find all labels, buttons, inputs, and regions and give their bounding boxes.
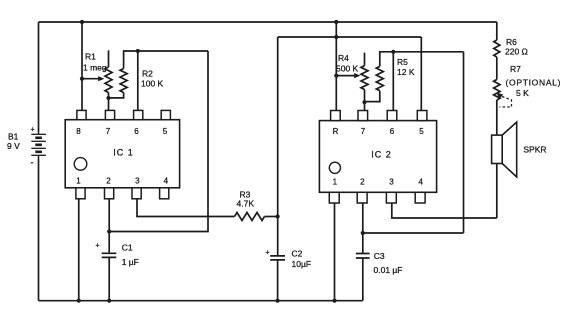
wire: top rail down to IC2 pin 8 [335, 22, 337, 111]
junction: R1 wiper tap [80, 77, 84, 81]
IC1 bottom pin 4 lead [160, 188, 169, 199]
IC1 pin-1 index circle [74, 158, 87, 171]
svg-text:7: 7 [361, 127, 366, 136]
op-amp/IC U1 (IC 1) body [65, 120, 179, 188]
capacitor C3 0.01uF [356, 254, 370, 259]
wire: C2 to bottom rail [277, 260, 279, 301]
resistor R4 500K potentiometer element [361, 66, 368, 90]
junction: R4 wiper tap [334, 74, 338, 78]
wire: top rail to R6 [496, 22, 498, 40]
wire: H3 upper tie line [278, 36, 422, 38]
junction: C2 / bottom rail [276, 299, 280, 303]
junction: R4 bottom / R5 bottom [362, 100, 366, 104]
svg-text:1: 1 [76, 177, 81, 186]
wire: down to IC1 pin 6 [137, 51, 139, 110]
junction: pin-1 wire / bottom rail [77, 299, 81, 303]
IC2 bottom pin 2 lead [357, 192, 367, 203]
junction: top rail / IC2 branch [334, 20, 338, 24]
IC1 top pin 6 lead [134, 110, 143, 119]
wire: down to IC2 pin 6 [392, 52, 394, 111]
svg-text:R6: R6 [506, 37, 517, 47]
svg-text:8: 8 [76, 127, 81, 136]
svg-text:C3: C3 [374, 251, 385, 261]
wire: battery B1 negative lead to bottom rail [38, 159, 40, 301]
wire: IC2 pin 3 to speaker [392, 203, 497, 218]
resistor R6 220 ohm element [494, 40, 500, 57]
wire: R2 bottom elbow to junction [109, 93, 124, 98]
wire: top rail to IC1 pin 8 [81, 22, 83, 110]
junction: R3 / middle vertical [276, 214, 280, 218]
op-amp/IC U2 (IC 2) body [319, 121, 436, 193]
svg-text:R5: R5 [397, 57, 408, 67]
svg-text:6: 6 [134, 127, 139, 136]
wire: C1 to bottom rail [108, 257, 110, 300]
svg-text:R7: R7 [510, 64, 521, 74]
junction: IC2 pin 2 / C3 / feedback [361, 231, 365, 235]
svg-text:2: 2 [360, 178, 365, 187]
svg-text:R2: R2 [142, 69, 153, 79]
IC1 top pin 8 lead [77, 110, 86, 119]
IC2 top pin 6 lead [387, 111, 397, 121]
junction: IC1 pin 2 / C1 / R2 loop [107, 229, 111, 233]
IC2 bottom pin 1 lead [329, 192, 339, 203]
svg-text:5 K: 5 K [516, 88, 529, 98]
resistor R7 dashed wiper arrow [497, 93, 504, 99]
resistor R4 wiper arrow [336, 75, 355, 77]
svg-text:0.01 µF: 0.01 µF [374, 265, 403, 275]
wire: R4 top stub (unconnected end) [364, 53, 366, 66]
svg-text:9 V: 9 V [7, 141, 20, 151]
wire: speaker return lead [496, 164, 498, 219]
wire: C3 to bottom rail end [362, 258, 364, 301]
junction: R1 bottom / R2 bottom [106, 96, 110, 100]
junction: C1 / bottom rail [107, 299, 111, 303]
wire: middle vertical (H3 to C2) [277, 37, 279, 256]
svg-text:6: 6 [390, 127, 395, 136]
wire: bottom ground rail [39, 300, 363, 302]
resistor R5 12K element [376, 66, 383, 90]
wire: R1/R2 bottom to IC1 pin 7 [108, 93, 110, 111]
svg-text:R: R [333, 127, 339, 136]
svg-text:R4: R4 [338, 53, 349, 63]
wire: pin-2 node to right vertical [363, 232, 464, 234]
wire: R5 bottom elbow to junction [365, 91, 380, 102]
wire: R3 right lead [265, 216, 278, 218]
svg-text:500 K: 500 K [336, 64, 359, 74]
svg-text:1: 1 [333, 178, 338, 187]
wire: H4 right end down to pin2 node [463, 52, 465, 233]
svg-text:C1: C1 [122, 243, 133, 253]
IC2 bottom pin 3 lead [386, 192, 396, 203]
battery B1 9V [31, 132, 46, 159]
svg-text:220 Ω: 220 Ω [505, 47, 528, 57]
junction: H4 / IC2 pin-6 branch [391, 50, 395, 54]
capacitor C1 1uF [102, 253, 117, 257]
IC1 bottom pin 2 lead [105, 188, 114, 199]
wire: R2-loop down and left to IC1 pin 2 node [109, 51, 208, 232]
wire: R7 to speaker [496, 100, 498, 135]
IC2 top pin R lead [331, 111, 341, 121]
svg-text:4: 4 [164, 177, 169, 186]
svg-text:4.7K: 4.7K [237, 199, 255, 209]
svg-text:3: 3 [135, 177, 140, 186]
svg-text:1 meg: 1 meg [83, 63, 107, 73]
IC2 top pin 7 lead [358, 111, 368, 121]
svg-text:R1: R1 [85, 52, 96, 62]
svg-text:100 K: 100 K [141, 79, 164, 89]
wire: R6 to R7 [496, 57, 498, 80]
IC1 top pin 5 lead [161, 110, 170, 119]
svg-text:4: 4 [418, 178, 423, 187]
svg-text:10µF: 10µF [292, 259, 312, 269]
junction: top rail / IC1 pin-8 branch [80, 20, 84, 24]
svg-text:+: + [31, 127, 35, 134]
junction: H3 / IC2 pin-8 branch [334, 35, 338, 39]
svg-text:+: + [96, 243, 100, 250]
svg-text:5: 5 [419, 127, 424, 136]
IC2 bottom pin 4 lead [415, 192, 425, 203]
wire: top supply rail [39, 21, 497, 23]
wire: IC1 pin 1 to bottom rail [78, 199, 80, 301]
wire: R2 top to right loop [124, 51, 208, 69]
wire: IC2 pin 1 to bottom rail [334, 203, 336, 301]
svg-text:1 µF: 1 µF [122, 257, 139, 267]
capacitor C2 10uF [270, 256, 285, 260]
resistor R7 5K potentiometer element [494, 80, 500, 101]
speaker SPKR [492, 135, 503, 163]
svg-text:2: 2 [106, 177, 111, 186]
wire: R5 top / H4 tie line [380, 52, 464, 67]
wire: IC1 pin 2 down to C1 [108, 199, 110, 253]
IC2 pin-1 index circle [329, 162, 340, 173]
IC2 top pin 5 lead [417, 111, 427, 121]
IC1 top pin 7 lead [105, 110, 114, 119]
resistor R3 4.7K element [235, 213, 265, 221]
svg-text:-: - [31, 158, 34, 168]
wire: R4 bottom to IC2 pin 7 [364, 90, 366, 111]
junction: IC2 pin-1 wire / bottom rail [332, 299, 336, 303]
svg-text:5: 5 [163, 127, 168, 136]
wire: H3 down through H4 to IC2 pin 5 [420, 37, 422, 111]
wire: battery B1 positive lead [38, 22, 40, 132]
junction: R2 top wire / IC1 pin-6 branch [136, 49, 140, 53]
IC1 bottom pin 3 lead [132, 188, 141, 199]
IC1 bottom pin 1 lead [76, 188, 85, 199]
svg-text:C2: C2 [292, 249, 303, 259]
svg-text:IC 2: IC 2 [371, 150, 392, 160]
svg-text:IC 1: IC 1 [113, 148, 134, 158]
resistor R2 100K element [120, 69, 127, 93]
svg-text:(OPTIONAL): (OPTIONAL) [506, 77, 562, 87]
wire: IC2 pin 2 down to C3 [362, 203, 364, 254]
wire: IC1 pin 3 to R3 [137, 199, 235, 217]
resistor R1 wiper arrow [82, 78, 99, 80]
svg-text:3: 3 [389, 178, 394, 187]
wire: R1 top stub (unconnected end) [108, 50, 110, 67]
svg-text:SPKR: SPKR [523, 144, 546, 154]
svg-text:+: + [266, 250, 270, 257]
resistor R1 1 meg potentiometer element [105, 67, 112, 93]
svg-text:12 K: 12 K [397, 67, 415, 77]
svg-text:7: 7 [106, 127, 111, 136]
